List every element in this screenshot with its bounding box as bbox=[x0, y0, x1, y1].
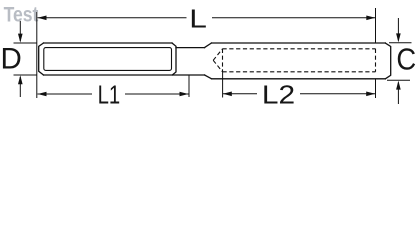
rod left chamfer + end face bbox=[39, 43, 44, 75]
L2 left arrow bbox=[223, 92, 232, 97]
svg-text:L2: L2 bbox=[262, 80, 295, 110]
C bottom arrow bbox=[396, 81, 401, 90]
C extension bottom bbox=[387, 79, 410, 81]
extension line L2 left bbox=[222, 72, 224, 98]
hole end bbox=[375, 49, 377, 72]
extension line L1 right bbox=[188, 76, 190, 98]
swage stud body: threaded rod outer contour bbox=[39, 43, 391, 79]
neck top bbox=[176, 47, 205, 49]
D bottom arrow bbox=[18, 75, 23, 84]
L2 right arrow bbox=[366, 92, 375, 97]
cone up to tube bbox=[205, 43, 212, 48]
D extension bottom bbox=[14, 74, 38, 76]
svg-text:D: D bbox=[1, 42, 22, 75]
tube bottom edge bbox=[212, 78, 386, 80]
svg-text:L1: L1 bbox=[98, 80, 121, 110]
C extension top bbox=[389, 42, 412, 44]
L1 dimension line bbox=[38, 93, 93, 95]
arrowheads bbox=[18, 16, 401, 97]
tube right chamfers + end face bbox=[385, 43, 390, 79]
dimension linework bbox=[14, 8, 412, 104]
rod outer top edge bbox=[44, 42, 173, 44]
extension line right (L / L2) lower bbox=[375, 79, 377, 98]
tube top edge bbox=[212, 42, 386, 44]
hole bottom line bbox=[223, 71, 376, 73]
L dimension line bbox=[38, 17, 187, 19]
rod right chamfer + end face bbox=[172, 43, 176, 75]
extension line left (L / L1) bbox=[36, 12, 38, 98]
C arrow shafts bbox=[397, 18, 399, 41]
D top arrow bbox=[18, 34, 23, 43]
drill point lower arm bbox=[213, 60, 222, 72]
drill point upper arm bbox=[213, 49, 222, 61]
L left arrow bbox=[38, 16, 47, 21]
svg-text:L: L bbox=[189, 5, 207, 34]
hole top line bbox=[223, 48, 376, 50]
C top arrow bbox=[396, 33, 401, 42]
hole mouth bbox=[222, 49, 224, 72]
hidden drilled hole (dashed) bbox=[213, 49, 375, 72]
thread root inner rectangle bbox=[44, 48, 172, 71]
rod bottom edge + neck bottom bbox=[44, 74, 205, 76]
L1 right arrow bbox=[180, 92, 189, 97]
D extension top bbox=[14, 42, 38, 44]
L right arrow bbox=[366, 16, 375, 21]
D arrow shafts bbox=[19, 21, 21, 41]
L2 dimension line bbox=[223, 93, 257, 95]
extension line right (L / L2) upper bbox=[375, 8, 377, 43]
L1 left arrow bbox=[38, 92, 47, 97]
svg-text:Test: Test bbox=[4, 4, 39, 27]
svg-text:C: C bbox=[396, 43, 416, 77]
cone down to tube bbox=[205, 75, 212, 79]
